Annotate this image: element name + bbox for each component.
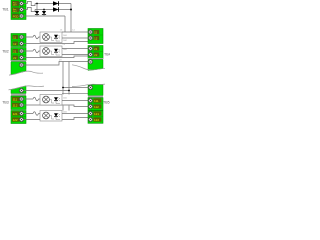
svg-text:TB2: TB2 xyxy=(2,50,9,54)
wire return ch3 xyxy=(24,105,88,107)
wire rail stub A between K3 K4 xyxy=(62,106,64,111)
TB1 terminal 2 xyxy=(19,7,23,11)
terminal block TB2 lower xyxy=(11,48,26,61)
TB5 terminal 122 xyxy=(88,117,92,121)
fuse ch3 xyxy=(33,97,39,100)
node 24V junction xyxy=(70,9,72,11)
svg-text:112: 112 xyxy=(94,105,99,109)
wire K1 out to TB4-12 xyxy=(62,37,88,39)
TB2 label 11 xyxy=(13,35,19,39)
node rail junction 2 xyxy=(62,87,64,89)
wire return ch2 xyxy=(24,56,88,58)
terminal block right torn piece xyxy=(72,58,105,70)
relay K4 xyxy=(40,111,62,122)
svg-text:PGD: PGD xyxy=(13,14,19,18)
svg-text:22: 22 xyxy=(94,53,98,57)
TB5 label box 112 xyxy=(93,104,101,109)
TB3 terminal 121 xyxy=(19,111,23,115)
wire K3 out to TB5-111 xyxy=(62,100,88,102)
terminal block TB5 torn top xyxy=(72,84,110,104)
svg-text:24V: 24V xyxy=(13,5,17,7)
svg-text:121: 121 xyxy=(13,112,18,116)
TB5 terminal 121 xyxy=(88,111,92,115)
TB3 terminal 112 xyxy=(19,103,23,107)
fuse ch4 xyxy=(33,112,39,115)
wire PGD xyxy=(24,15,65,17)
svg-text:12: 12 xyxy=(94,36,98,40)
TB3 terminal 111 xyxy=(19,97,23,101)
TB4 terminal 21 xyxy=(88,46,92,50)
svg-text:111: 111 xyxy=(94,99,99,103)
svg-text:21: 21 xyxy=(13,49,17,53)
wire input ch1 xyxy=(24,36,40,38)
wire PGD rail xyxy=(64,16,66,32)
fuse ch1 xyxy=(33,35,39,38)
fuse F2 xyxy=(28,7,36,11)
wire K4 out to TB5-121 xyxy=(62,113,88,115)
terminal block TB4 lower xyxy=(88,46,103,59)
TB2 label 21 xyxy=(13,49,19,53)
TB3 label box 122 xyxy=(12,117,20,122)
wire return ch1 xyxy=(24,42,88,44)
TB4 terminal 12 xyxy=(88,36,92,40)
terminal block left torn piece xyxy=(9,60,43,75)
svg-text:12: 12 xyxy=(13,42,17,46)
svg-text:11: 11 xyxy=(13,35,16,39)
TB3 terminal 122 xyxy=(19,117,23,121)
right torn terminal xyxy=(88,60,92,64)
svg-text:22: 22 xyxy=(13,56,17,60)
wire Pwr 24V xyxy=(24,3,71,5)
diode D2 clamp xyxy=(42,9,46,16)
TB3 label box 112 xyxy=(12,103,20,108)
TB2 terminal 22 xyxy=(19,55,23,59)
TB2 terminal 12 xyxy=(19,41,23,45)
TB1 label PGD xyxy=(12,14,19,18)
relay K3 xyxy=(40,95,62,106)
terminal block TB2 upper xyxy=(2,34,26,54)
wire left torn to bus xyxy=(24,62,88,66)
svg-text:111: 111 xyxy=(13,97,18,101)
svg-text:11: 11 xyxy=(94,30,97,34)
wire K2 out to TB4-22 xyxy=(62,54,88,56)
TB2 terminal 11 xyxy=(19,35,23,39)
node rail junction xyxy=(68,90,70,92)
svg-text:112: 112 xyxy=(13,103,18,107)
wire rail to TB5 torn terminal xyxy=(63,87,88,89)
TB5 terminal 111 xyxy=(88,98,92,102)
relay K2 xyxy=(40,46,62,57)
TB4 label 21 xyxy=(94,46,100,50)
terminal block TB1 xyxy=(2,0,26,20)
diode D3 series xyxy=(53,1,59,5)
wire TB3 torn to rail xyxy=(24,90,69,92)
fuse F1 xyxy=(28,1,36,5)
diode D4 series xyxy=(53,7,59,11)
TB3 label box 121 xyxy=(12,111,20,116)
TB4 terminal 11 xyxy=(88,30,92,34)
terminal block TB5 upper xyxy=(88,98,103,111)
wire return ch4 xyxy=(24,118,88,120)
TB2 terminal 21 xyxy=(19,49,23,53)
TB2 label 12 xyxy=(13,41,19,45)
TB1 label Sec 24V xyxy=(12,7,19,13)
TB1 label Pwr 24V xyxy=(12,1,19,7)
left torn terminal xyxy=(19,63,23,67)
fuse ch2 xyxy=(33,49,39,52)
terminal block TB4 upper xyxy=(88,29,111,57)
TB1 terminal 3 xyxy=(19,14,23,18)
svg-text:TB1: TB1 xyxy=(2,8,9,12)
TB5 label box 122 xyxy=(93,117,101,122)
wire bus above K3 xyxy=(62,92,88,94)
svg-text:121: 121 xyxy=(94,112,99,116)
TB2 label 22 xyxy=(13,55,19,59)
terminal block TB3 upper xyxy=(11,96,26,110)
TB4 terminal 22 xyxy=(88,52,92,56)
wire input ch3 xyxy=(24,98,40,100)
TB3 torn terminal xyxy=(19,88,23,92)
svg-text:TB3: TB3 xyxy=(2,101,9,105)
wire rail B xyxy=(68,62,70,95)
relay K1 xyxy=(40,32,62,43)
TB4 label 11 xyxy=(94,30,100,34)
svg-text:122: 122 xyxy=(94,118,99,122)
svg-text:122: 122 xyxy=(13,118,18,122)
TB5 label box 121 xyxy=(93,111,101,116)
terminal block TB5 lower xyxy=(88,111,103,124)
svg-text:21: 21 xyxy=(94,47,98,51)
wire 24V rail xyxy=(70,4,72,33)
wire rail stub B between K3 K4 xyxy=(68,106,70,111)
svg-text:TB4: TB4 xyxy=(104,53,110,57)
TB3 label box 111 xyxy=(12,97,20,102)
wire Sec 24V xyxy=(24,9,71,11)
TB5 terminal 112 xyxy=(88,104,92,108)
wire input ch4 xyxy=(24,113,40,115)
diode D1 clamp xyxy=(35,3,39,16)
wire rail A xyxy=(62,62,64,95)
TB4 label 12 xyxy=(94,36,100,40)
wire K1 contact to TB4-11 xyxy=(62,31,88,33)
TB5 label box 111 xyxy=(93,98,101,103)
wire input ch2 xyxy=(24,50,40,52)
terminal block TB3 lower xyxy=(11,111,26,124)
TB5 torn terminal xyxy=(88,85,92,89)
svg-text:24V: 24V xyxy=(13,11,17,13)
svg-text:TB5: TB5 xyxy=(103,101,110,105)
TB4 label 22 xyxy=(94,52,100,56)
wire K2 contact to TB4-21 xyxy=(62,48,88,50)
terminal block TB3 torn top xyxy=(2,86,44,105)
TB1 terminal 1 xyxy=(19,1,23,5)
